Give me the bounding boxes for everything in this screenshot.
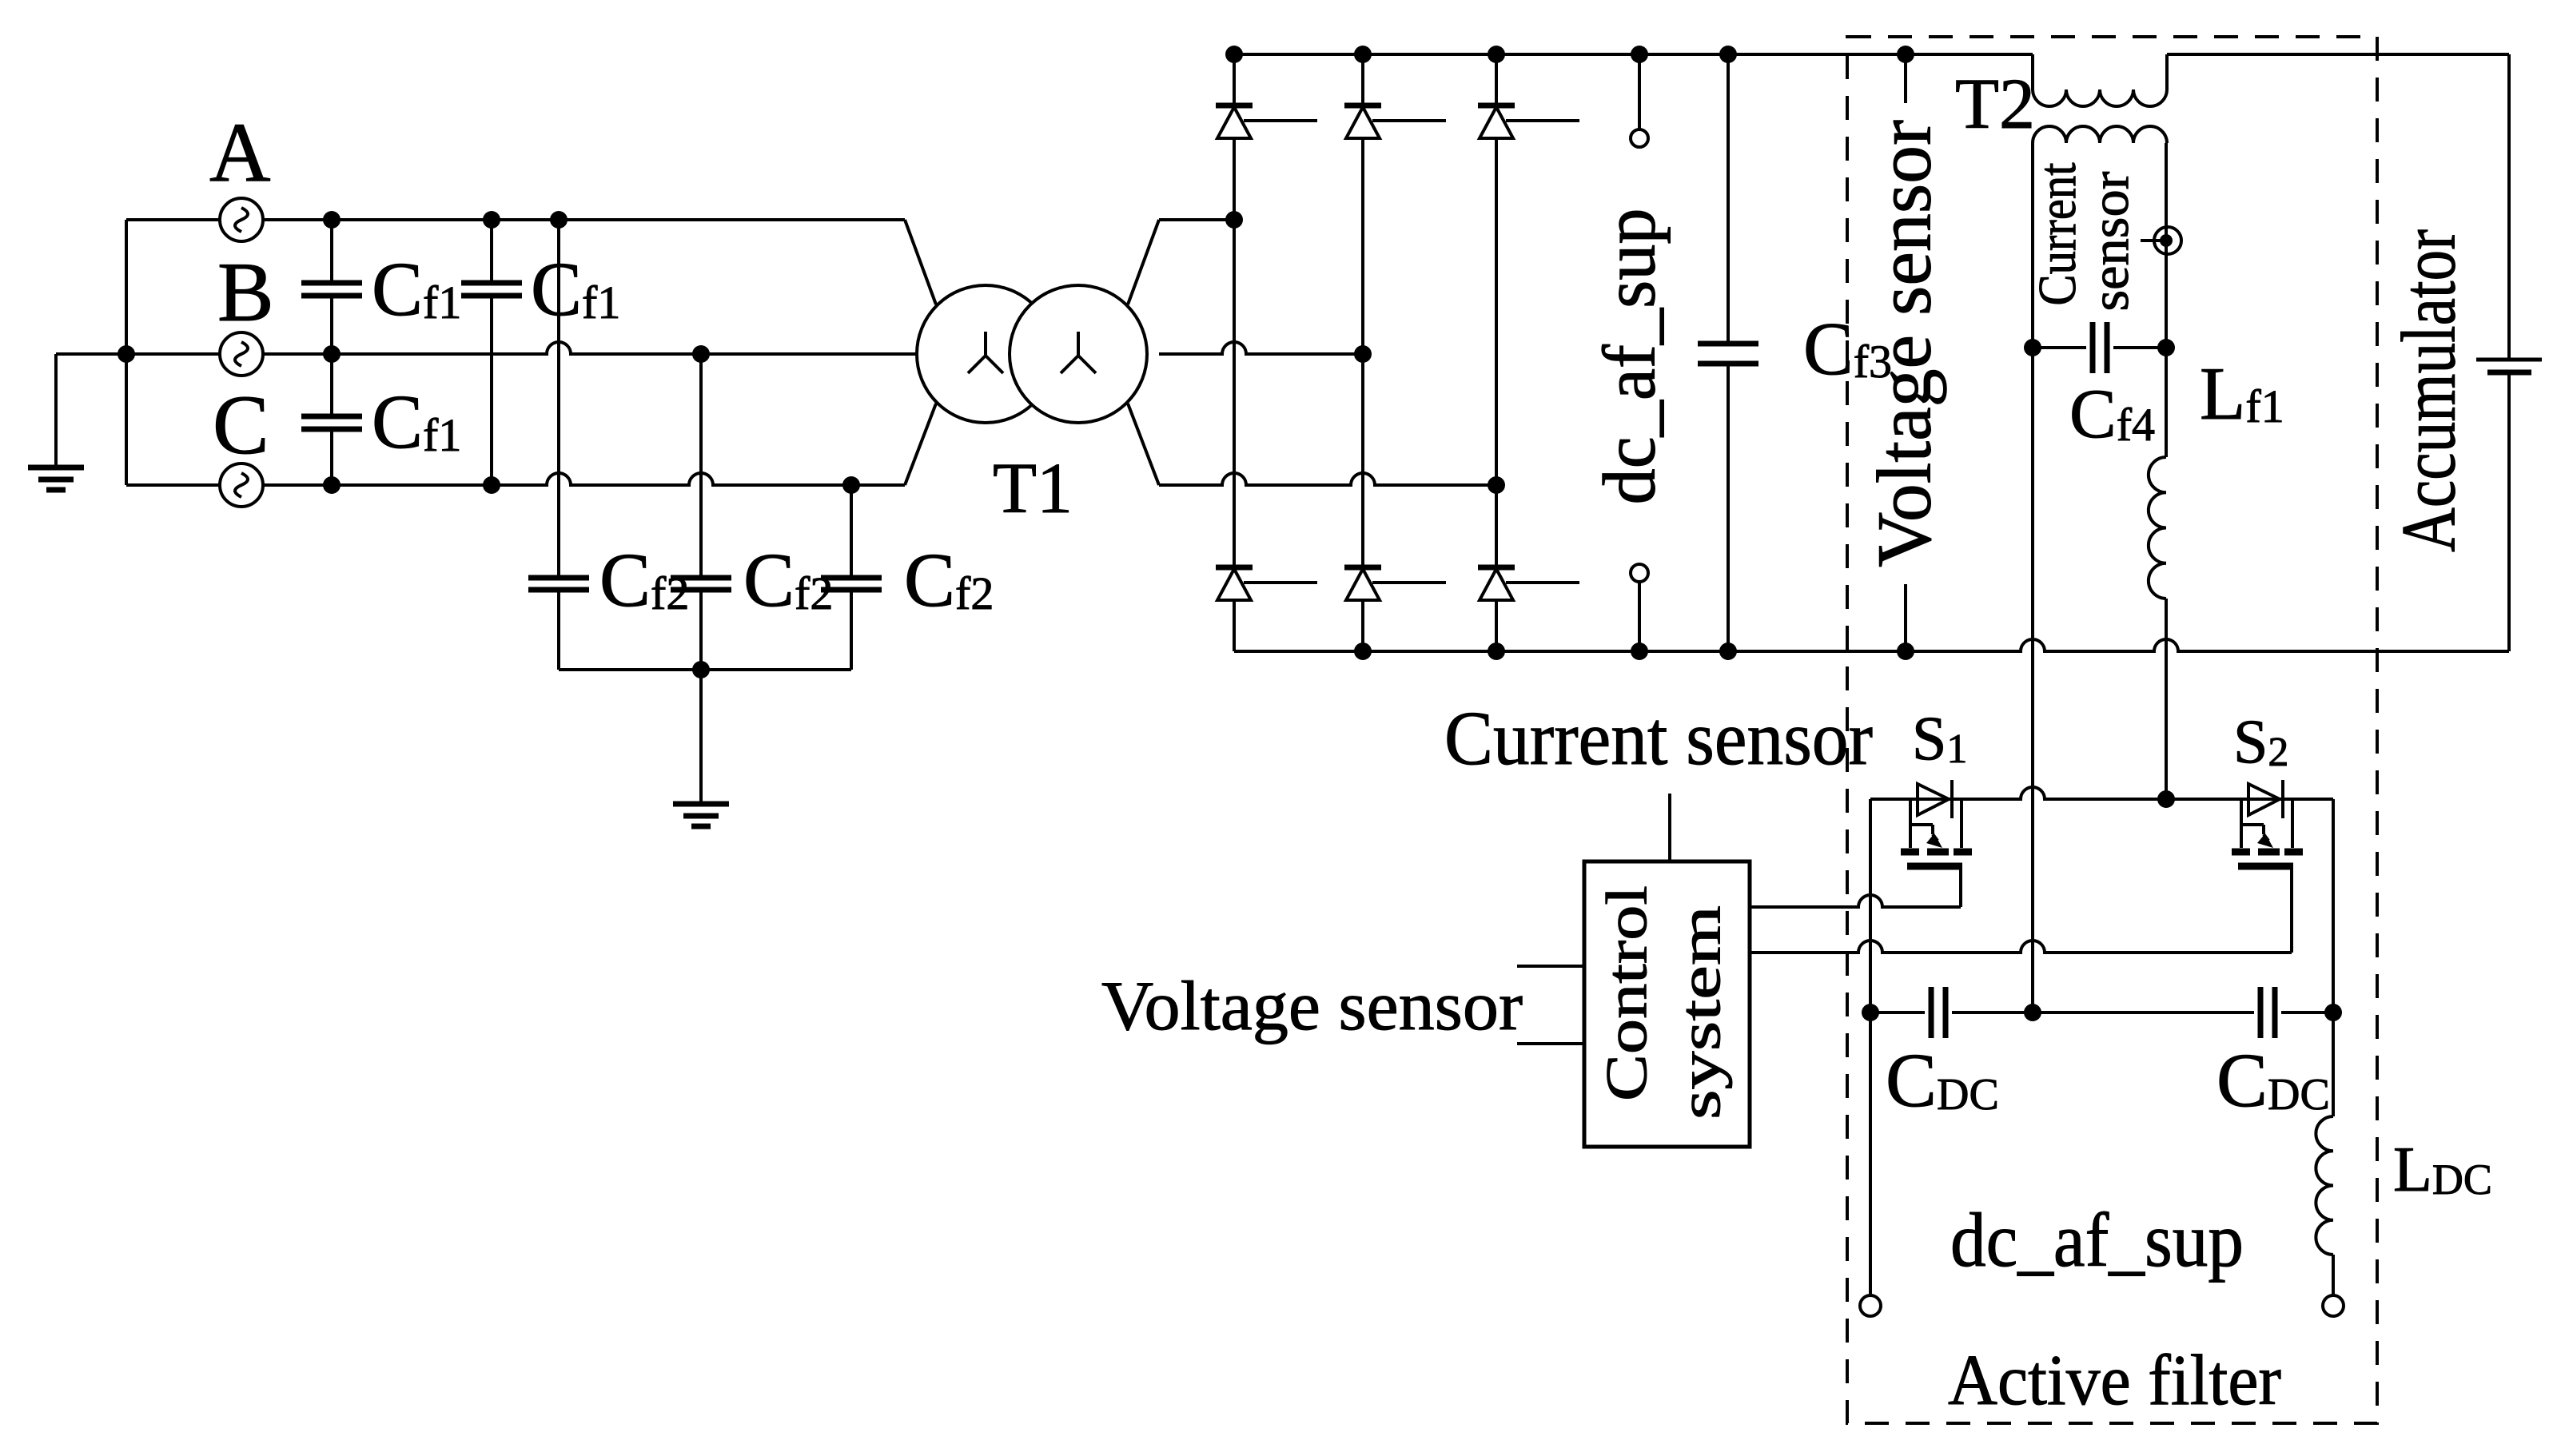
svg-text:dc_af_sup: dc_af_sup (1589, 209, 1671, 505)
svg-text:C: C (213, 378, 269, 471)
svg-text:T2: T2 (1955, 65, 2035, 144)
svg-text:Voltage sensor: Voltage sensor (1101, 968, 1523, 1045)
svg-text:sensor: sensor (2081, 172, 2140, 312)
svg-text:system: system (1668, 905, 1733, 1120)
svg-text:Accumulator: Accumulator (2386, 229, 2471, 552)
svg-text:B: B (217, 245, 274, 339)
svg-text:Voltage sensor: Voltage sensor (1862, 120, 1947, 567)
svg-text:Control: Control (1595, 885, 1659, 1101)
svg-text:Current: Current (2028, 162, 2087, 305)
svg-text:dc_af_sup: dc_af_sup (1950, 1197, 2244, 1283)
svg-text:T1: T1 (993, 449, 1073, 528)
svg-text:Active filter: Active filter (1948, 1341, 2281, 1420)
svg-text:Current sensor: Current sensor (1444, 695, 1873, 781)
svg-text:A: A (209, 105, 271, 199)
